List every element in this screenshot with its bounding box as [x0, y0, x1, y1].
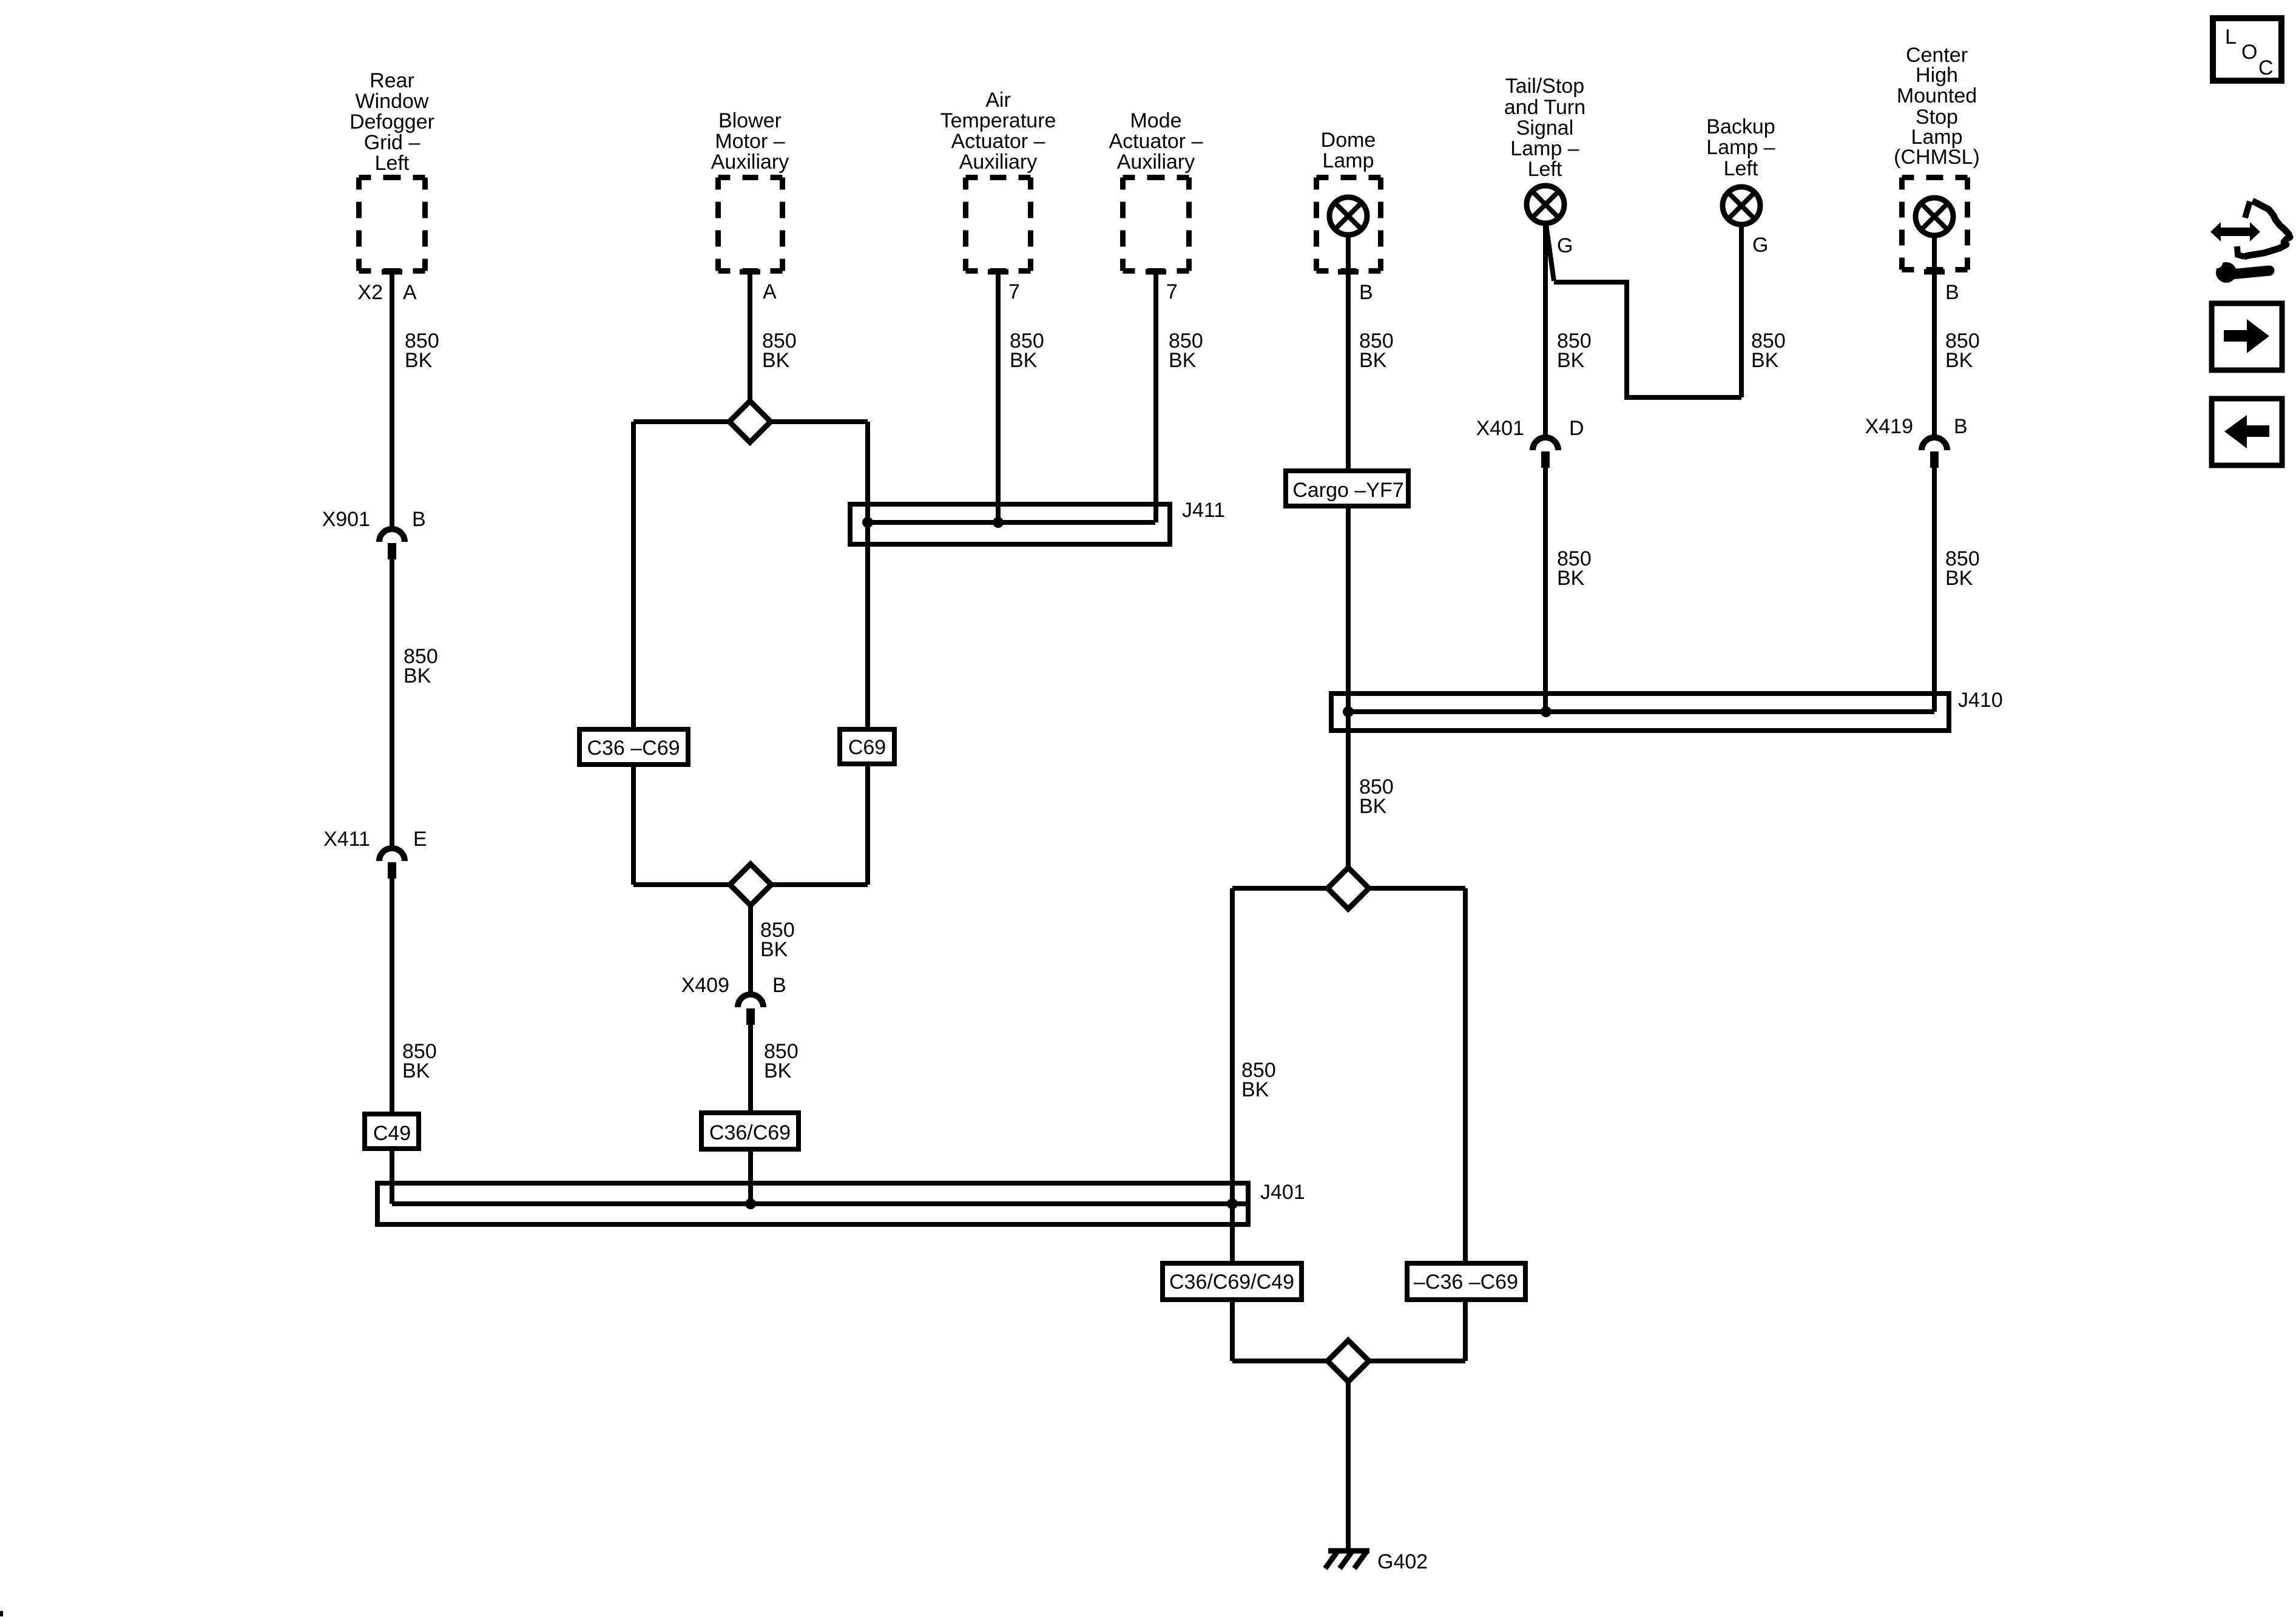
- svg-text:G: G: [1557, 234, 1573, 257]
- svg-text:C36/C69/C49: C36/C69/C49: [1169, 1271, 1294, 1294]
- svg-text:Temperature: Temperature: [940, 109, 1056, 132]
- svg-text:Left: Left: [1724, 157, 1758, 180]
- svg-text:–C36 –C69: –C36 –C69: [1414, 1271, 1518, 1294]
- svg-text:BK: BK: [1557, 349, 1585, 372]
- svg-text:BK: BK: [764, 1059, 792, 1082]
- svg-text:C69: C69: [848, 736, 886, 759]
- svg-text:BK: BK: [405, 349, 433, 372]
- svg-text:Rear: Rear: [370, 69, 414, 92]
- svg-text:C36 –C69: C36 –C69: [587, 737, 680, 760]
- svg-text:Signal: Signal: [1516, 116, 1574, 140]
- svg-text:BK: BK: [1359, 795, 1387, 818]
- svg-text:Window: Window: [356, 90, 429, 113]
- svg-text:L: L: [2225, 25, 2237, 49]
- svg-text:Backup: Backup: [1706, 115, 1775, 138]
- svg-text:B: B: [1359, 281, 1373, 304]
- svg-text:BK: BK: [402, 1059, 430, 1082]
- svg-text:BK: BK: [1359, 349, 1387, 372]
- svg-text:B: B: [772, 974, 786, 997]
- svg-text:X401: X401: [1476, 417, 1524, 440]
- svg-text:Mode: Mode: [1130, 109, 1181, 132]
- svg-text:C49: C49: [373, 1122, 411, 1145]
- svg-text:D: D: [1569, 417, 1584, 440]
- svg-text:J411: J411: [1182, 499, 1225, 522]
- svg-text:G402: G402: [1377, 1550, 1428, 1573]
- svg-text:X901: X901: [322, 508, 370, 531]
- svg-text:BK: BK: [1557, 567, 1585, 590]
- svg-text:B: B: [412, 508, 426, 531]
- svg-text:Tail/Stop: Tail/Stop: [1505, 75, 1584, 98]
- svg-text:B: B: [1954, 415, 1968, 438]
- svg-text:(CHMSL): (CHMSL): [1894, 146, 1980, 169]
- svg-text:A: A: [763, 280, 777, 303]
- svg-text:Lamp: Lamp: [1322, 149, 1374, 172]
- svg-text:Blower: Blower: [718, 109, 782, 132]
- svg-text:BK: BK: [762, 349, 790, 372]
- svg-text:Dome: Dome: [1321, 129, 1376, 152]
- svg-text:BK: BK: [1241, 1078, 1269, 1101]
- svg-text:J410: J410: [1958, 689, 2003, 712]
- svg-text:Grid –: Grid –: [364, 131, 420, 154]
- svg-text:7: 7: [1166, 280, 1178, 303]
- svg-text:O: O: [2241, 41, 2257, 64]
- svg-text:BK: BK: [1169, 349, 1197, 372]
- svg-text:C: C: [2258, 56, 2274, 79]
- svg-text:7: 7: [1008, 280, 1020, 303]
- svg-text:C36/C69: C36/C69: [709, 1121, 791, 1144]
- svg-text:BK: BK: [403, 664, 431, 687]
- svg-text:Left: Left: [1528, 158, 1562, 181]
- svg-text:Actuator –: Actuator –: [951, 130, 1045, 153]
- svg-text:J401: J401: [1260, 1181, 1305, 1204]
- svg-text:Lamp –: Lamp –: [1510, 137, 1579, 160]
- svg-text:BK: BK: [1945, 349, 1973, 372]
- svg-text:BK: BK: [1945, 567, 1973, 590]
- svg-text:Actuator –: Actuator –: [1109, 130, 1203, 153]
- svg-text:BK: BK: [1010, 349, 1038, 372]
- svg-text:Auxiliary: Auxiliary: [959, 150, 1037, 174]
- svg-text:Auxiliary: Auxiliary: [711, 150, 789, 174]
- svg-text:E: E: [413, 828, 427, 851]
- svg-text:and Turn: and Turn: [1504, 96, 1585, 119]
- svg-text:Lamp –: Lamp –: [1706, 136, 1775, 159]
- svg-text:BK: BK: [1751, 349, 1779, 372]
- svg-text:X2: X2: [357, 281, 383, 304]
- svg-text:X419: X419: [1865, 415, 1913, 438]
- svg-text:X411: X411: [323, 828, 370, 851]
- svg-text:Cargo –YF7: Cargo –YF7: [1292, 479, 1403, 502]
- svg-text:X409: X409: [681, 974, 729, 997]
- svg-text:A: A: [403, 281, 417, 304]
- svg-text:High: High: [1916, 64, 1958, 87]
- svg-text:BK: BK: [760, 938, 788, 961]
- svg-text:Air: Air: [985, 89, 1011, 112]
- svg-text:Auxiliary: Auxiliary: [1117, 150, 1195, 174]
- svg-text:G: G: [1752, 234, 1768, 257]
- svg-text:Motor –: Motor –: [715, 130, 785, 153]
- svg-text:Mounted: Mounted: [1897, 84, 1977, 107]
- svg-text:Left: Left: [375, 152, 410, 175]
- svg-text:Defogger: Defogger: [349, 110, 434, 133]
- svg-text:B: B: [1945, 281, 1959, 304]
